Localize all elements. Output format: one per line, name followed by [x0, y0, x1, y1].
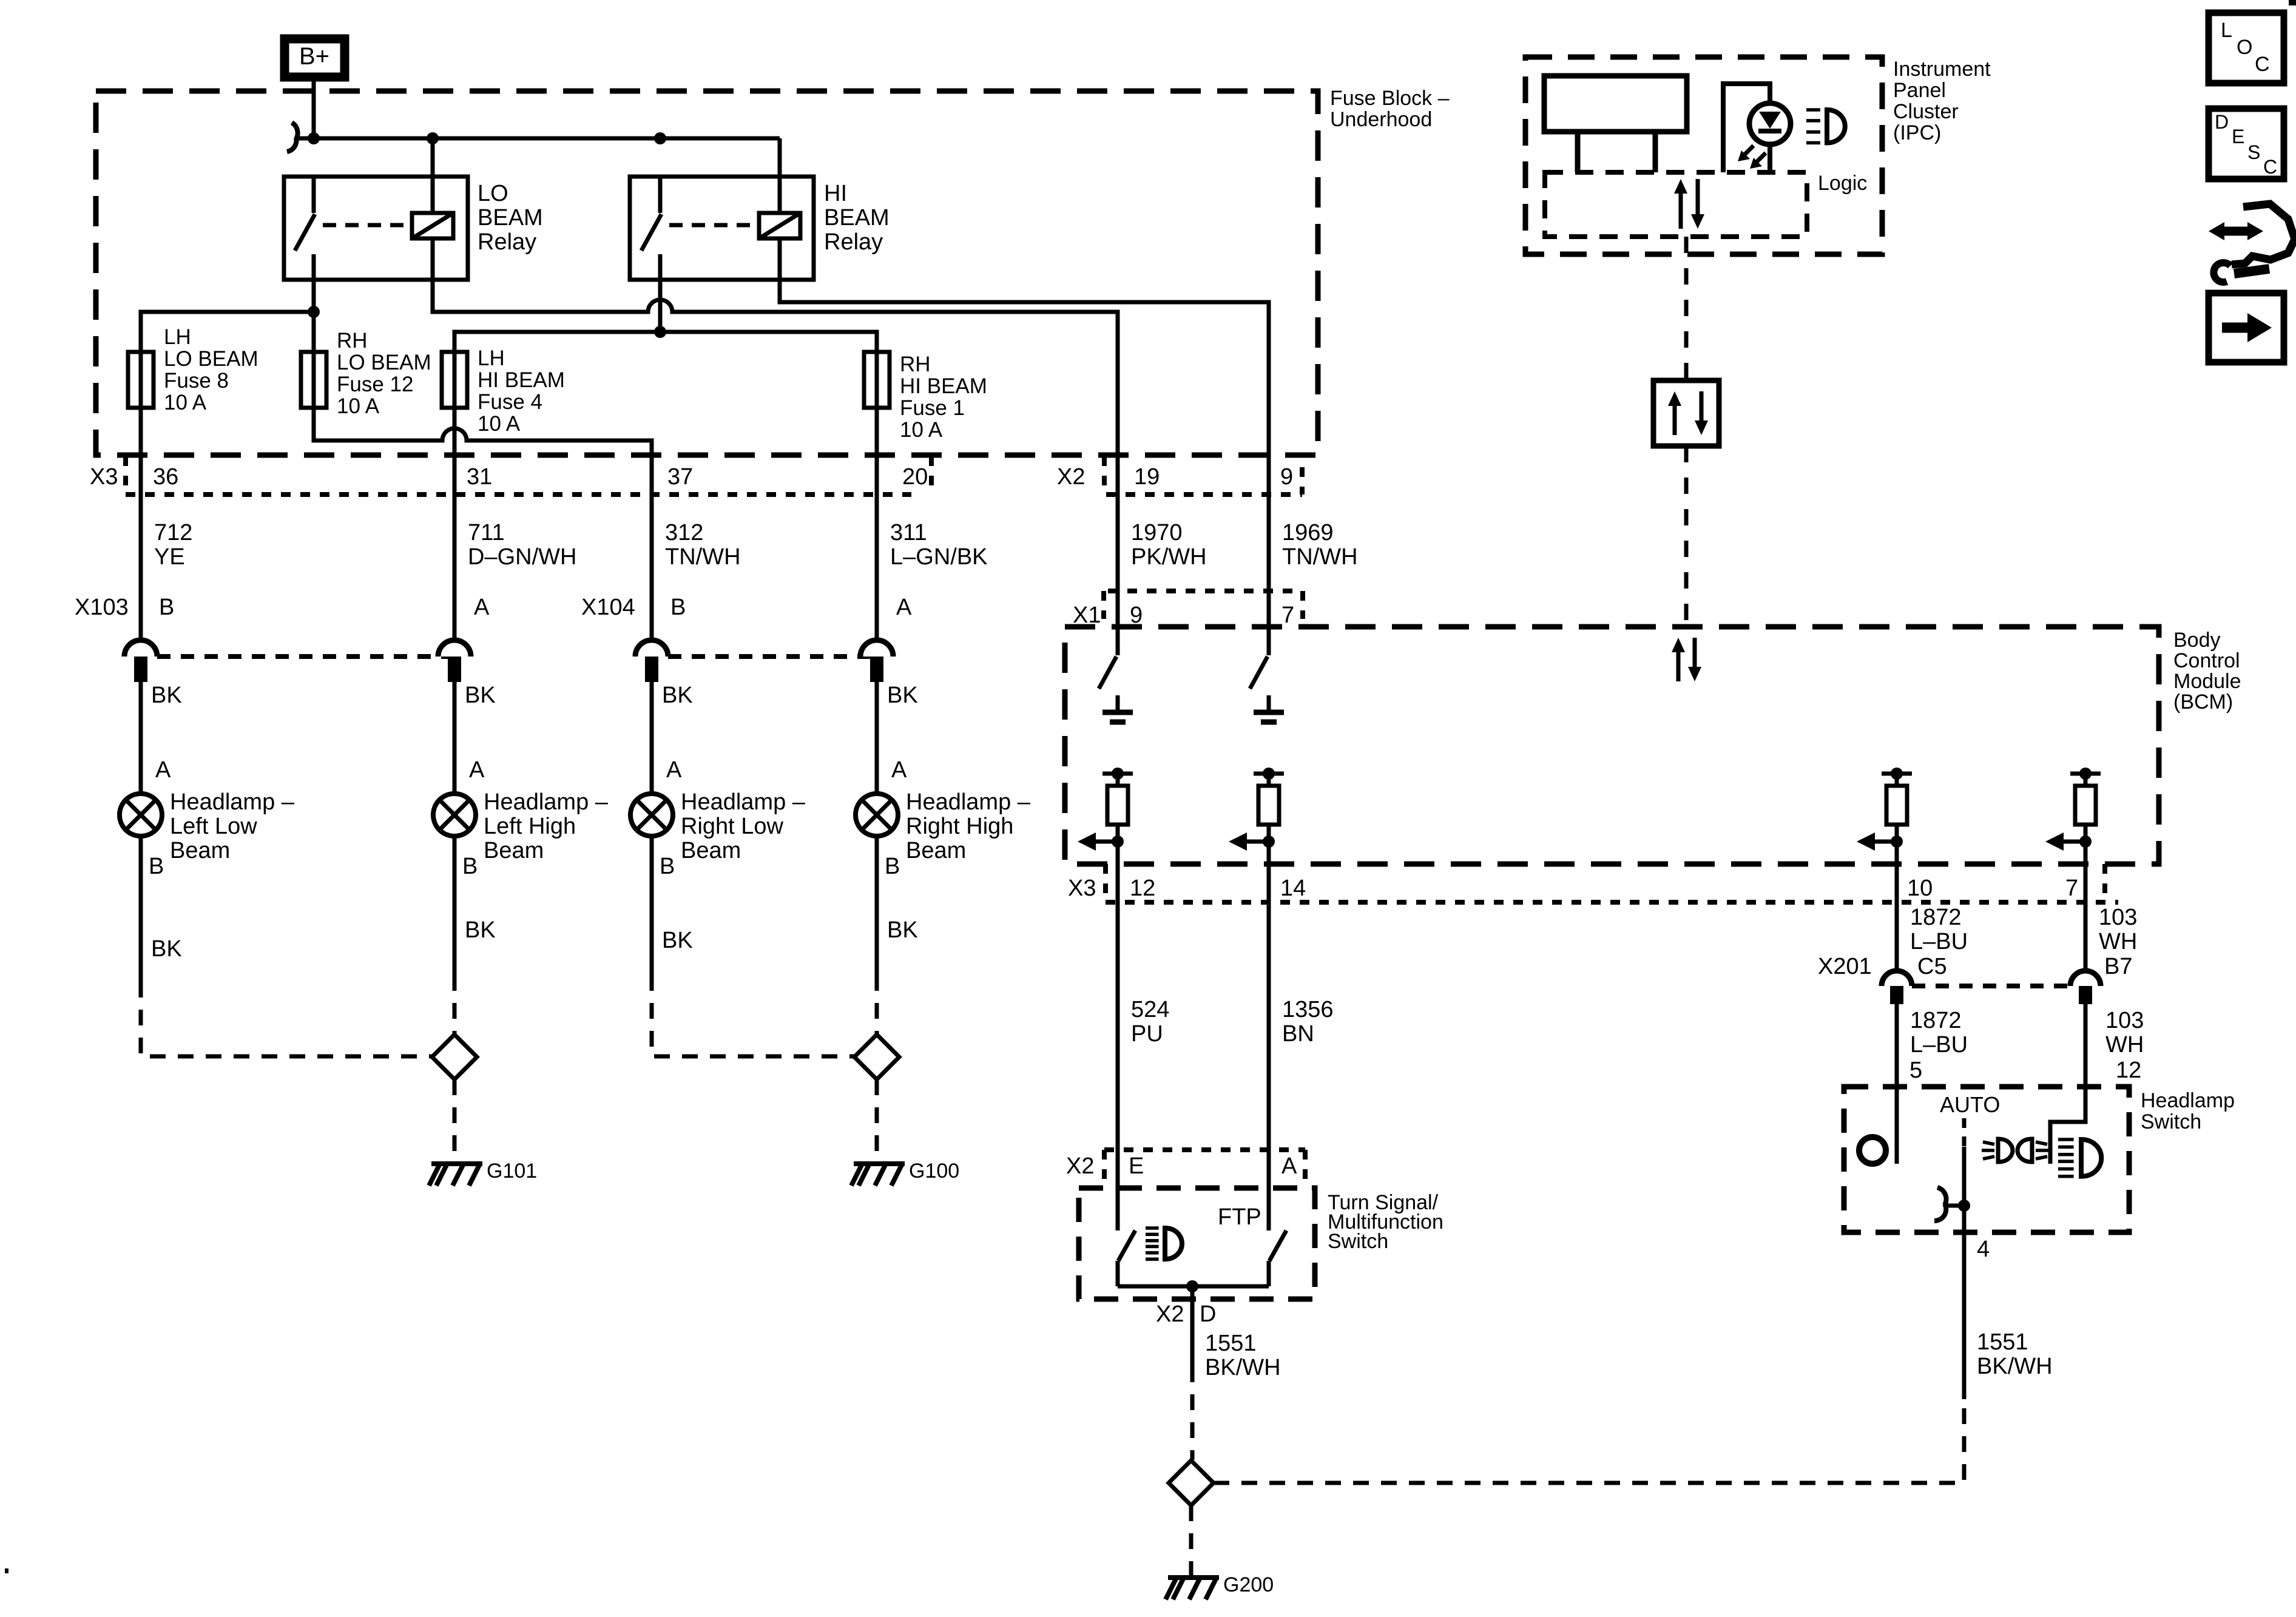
svg-text:LH: LH — [478, 346, 505, 370]
connector X104 pin A — [860, 640, 893, 682]
svg-text:10 A: 10 A — [164, 391, 207, 414]
svg-text:WH: WH — [2105, 1032, 2144, 1058]
svg-text:B: B — [149, 854, 164, 879]
svg-text:B: B — [660, 854, 675, 879]
svg-text:A: A — [896, 595, 912, 620]
svg-text:D–GN/WH: D–GN/WH — [468, 544, 576, 570]
wire HI coil to pin 9 — [780, 238, 1269, 455]
svg-text:712: 712 — [154, 520, 192, 545]
svg-text:PU: PU — [1131, 1021, 1163, 1047]
serial data arrows in BCM — [1672, 638, 1701, 681]
svg-text:L: L — [2221, 19, 2232, 42]
svg-text:Right Low: Right Low — [681, 814, 784, 839]
svg-text:Panel: Panel — [1893, 79, 1946, 102]
svg-text:312: 312 — [665, 520, 703, 545]
svg-text:BK: BK — [465, 683, 496, 708]
svg-text:Beam: Beam — [681, 838, 741, 863]
wire X201 C5 to switch — [1895, 1004, 1899, 1164]
svg-text:Fuse 4: Fuse 4 — [478, 390, 542, 414]
wire 1970 pin19 to BCM — [1116, 455, 1120, 655]
svg-text:D: D — [1200, 1301, 1216, 1327]
switch BCM high beam driver — [1250, 657, 1284, 722]
node switch common — [1186, 1280, 1198, 1292]
wire dashed into splice — [453, 975, 457, 1035]
svg-text:Headlamp: Headlamp — [2141, 1089, 2235, 1112]
serial data gateway box — [1653, 380, 1719, 446]
svg-text:RH: RH — [900, 353, 931, 376]
wire LO coil to pin 19 with hop — [433, 238, 1118, 455]
wire feed to fuse 8 — [141, 312, 314, 352]
wire serial data IPC to BCM dashed — [1684, 237, 1689, 380]
svg-text:BK: BK — [151, 936, 182, 962]
svg-text:Logic: Logic — [1818, 172, 1867, 195]
svg-text:1969: 1969 — [1282, 520, 1334, 545]
svg-text:L–GN/BK: L–GN/BK — [890, 544, 988, 570]
fuse block underhood dashed box — [96, 87, 1450, 455]
svg-text:G101: G101 — [487, 1160, 537, 1183]
IPC instrument panel cluster dashed box — [1525, 57, 1991, 254]
wire 524 PU label — [1131, 997, 1169, 1047]
ground G100 — [851, 1160, 959, 1186]
svg-text:A: A — [474, 595, 490, 620]
connector X3 fuse block row — [90, 456, 931, 495]
svg-text:L–BU: L–BU — [1910, 1032, 1968, 1058]
svg-text:1872: 1872 — [1910, 905, 1962, 930]
svg-text:BK: BK — [151, 683, 182, 708]
connector X201 pin C5 — [1882, 971, 1912, 1004]
svg-text:Cluster: Cluster — [1893, 100, 1959, 123]
svg-text:7: 7 — [1281, 603, 1294, 628]
svg-text:Body: Body — [2173, 629, 2221, 652]
connector X2 pin D labels — [1156, 1301, 1216, 1327]
svg-text:A: A — [666, 757, 682, 783]
wire bus corner to HI coil — [778, 138, 782, 213]
wire 711 D-GN/WH label — [468, 520, 576, 570]
svg-text:12: 12 — [2116, 1058, 2141, 1083]
svg-text:Left High: Left High — [484, 814, 576, 839]
svg-text:RH: RH — [337, 329, 368, 353]
svg-text:E: E — [2232, 126, 2244, 147]
svg-text:5: 5 — [1909, 1058, 1922, 1083]
svg-text:B: B — [462, 854, 478, 879]
svg-text:X3: X3 — [1068, 876, 1096, 901]
wire LO relay coil to bus — [431, 138, 435, 213]
svg-text:1551: 1551 — [1205, 1331, 1257, 1356]
svg-text:Control: Control — [2173, 649, 2240, 672]
node bus / B+ junction — [308, 132, 320, 144]
connector X201 pin B7 — [2070, 971, 2101, 1004]
wire LO relay output to fuse feed — [312, 280, 316, 352]
svg-text:BK/WH: BK/WH — [1977, 1354, 2053, 1379]
wire BK right low — [652, 682, 693, 794]
lamp Headlamp Left High Beam — [433, 757, 609, 879]
svg-text:FTP: FTP — [1218, 1204, 1261, 1230]
svg-text:1551: 1551 — [1977, 1329, 2028, 1355]
connector X104 pin B — [635, 640, 668, 682]
svg-text:Beam: Beam — [906, 838, 966, 863]
svg-text:C5: C5 — [1917, 954, 1947, 979]
svg-text:Switch: Switch — [2141, 1110, 2201, 1133]
svg-text:10 A: 10 A — [478, 412, 521, 436]
wire 1551 from switch — [1190, 1286, 1195, 1366]
wire 1969 TN/WH label — [1282, 520, 1358, 570]
node bus / LO coil junction — [427, 132, 439, 144]
svg-text:Fuse 12: Fuse 12 — [337, 373, 413, 396]
svg-text:BN: BN — [1282, 1021, 1314, 1047]
connector X104 — [581, 595, 912, 657]
wire 1970 PK/WH label — [1131, 520, 1207, 570]
svg-text:B7: B7 — [2104, 954, 2132, 979]
svg-text:(BCM): (BCM) — [2173, 690, 2233, 714]
wire switch common rail — [1118, 1284, 1269, 1289]
wire BK right high — [877, 682, 918, 794]
node HI output junction — [654, 326, 666, 338]
svg-text:103: 103 — [2105, 1008, 2144, 1033]
svg-text:Relay: Relay — [478, 229, 536, 255]
wire BK left high lower — [454, 836, 496, 975]
svg-text:LO BEAM: LO BEAM — [164, 347, 258, 371]
wire 1356 BN label — [1282, 997, 1334, 1047]
wire 1551 BK/WH label — [1205, 1331, 1281, 1380]
svg-text:311: 311 — [890, 520, 927, 545]
svg-text:C: C — [2255, 53, 2270, 76]
svg-text:X2: X2 — [1057, 464, 1085, 490]
switch BCM low beam driver — [1099, 657, 1133, 722]
svg-text:BK: BK — [465, 917, 496, 943]
svg-text:Fuse 1: Fuse 1 — [900, 396, 965, 420]
svg-text:BK: BK — [887, 917, 918, 943]
wire pin 14 stub — [1267, 842, 1271, 1230]
ground G200 — [1166, 1573, 1274, 1599]
connector X2 turn signal row — [1066, 1150, 1305, 1180]
svg-text:9: 9 — [1280, 464, 1293, 490]
svg-text:Headlamp –: Headlamp – — [681, 789, 806, 815]
svg-text:O: O — [2237, 36, 2252, 59]
IPC logic dashed box — [1545, 172, 1867, 237]
wire 1872 L-BU label lower — [1910, 1008, 1968, 1058]
svg-text:B: B — [670, 595, 686, 620]
connector X201 row — [1818, 954, 2132, 986]
svg-text:HI: HI — [824, 181, 847, 206]
svg-text:LO BEAM: LO BEAM — [337, 351, 431, 374]
wire B+ feed — [312, 81, 316, 138]
wire HI relay output — [658, 280, 663, 332]
svg-text:Fuse 8: Fuse 8 — [164, 369, 229, 393]
wire 103 WH label lower — [2105, 1008, 2144, 1058]
lamp Headlamp Left Low Beam — [120, 757, 295, 879]
wire 1872 L-BU label upper — [1910, 905, 1968, 954]
page footer dot — [5, 1568, 8, 1573]
svg-text:Instrument: Instrument — [1893, 58, 1991, 81]
wire dashed to G100 splice — [652, 975, 854, 1056]
wire 1969 pin9 to BCM — [1267, 455, 1271, 655]
ground G101 — [429, 1160, 537, 1186]
svg-text:LO: LO — [478, 181, 508, 206]
wire BK right low lower — [652, 836, 693, 975]
wire fuse 4 to pin 31 — [453, 408, 457, 640]
svg-text:A: A — [155, 757, 171, 783]
svg-text:711: 711 — [468, 520, 505, 545]
svg-text:BK: BK — [662, 928, 693, 953]
node LO output junction — [308, 306, 320, 318]
svg-text:14: 14 — [1280, 876, 1306, 901]
fuse LH HI BEAM Fuse 4 — [442, 346, 565, 436]
svg-text:A: A — [469, 757, 485, 783]
wire dashed into splice right — [875, 975, 879, 1035]
relay HI BEAM Relay — [630, 177, 890, 280]
wire 312 TN/WH label — [665, 520, 741, 570]
switch off position O — [1859, 1137, 1886, 1164]
lamp Headlamp Right High Beam — [856, 757, 1031, 879]
wire dashed splice to ground G200 — [1189, 1505, 1194, 1575]
IPC headlamp icon — [1806, 110, 1845, 143]
svg-text:X104: X104 — [581, 595, 635, 620]
splice left BK — [432, 1035, 477, 1079]
svg-text:12: 12 — [1130, 876, 1155, 901]
wire BK left low — [141, 682, 182, 794]
connector X2 fuse block row — [1057, 456, 1302, 495]
svg-text:103: 103 — [2099, 905, 2137, 930]
svg-text:10 A: 10 A — [337, 394, 380, 418]
fuse LH LO BEAM Fuse 8 — [128, 325, 258, 414]
svg-text:L–BU: L–BU — [1910, 929, 1968, 954]
legend next arrow box — [2209, 293, 2284, 362]
svg-text:31: 31 — [467, 464, 492, 490]
svg-text:Headlamp –: Headlamp – — [484, 789, 609, 815]
svg-text:BEAM: BEAM — [824, 205, 890, 231]
wire 1551 dashed to splice — [1190, 1366, 1195, 1460]
switch flash to pass A — [1269, 1230, 1286, 1286]
IPC display block — [1544, 76, 1687, 172]
svg-text:A: A — [891, 757, 907, 783]
node bus / HI switch junction — [654, 132, 666, 144]
wire dashed to G101 splice — [141, 982, 432, 1056]
wire fuse 1 to pin 20 — [875, 408, 879, 640]
svg-text:D: D — [2215, 111, 2229, 133]
wire 712 YE label — [154, 520, 192, 570]
lamp Headlamp Right Low Beam — [630, 757, 806, 879]
wire pin 7 stub — [2084, 842, 2088, 971]
svg-text:LH: LH — [164, 325, 191, 349]
resistor BCM low beam input — [1078, 768, 1133, 851]
wire dashed to ground G100 — [875, 1079, 879, 1161]
svg-text:BK: BK — [887, 683, 918, 708]
wire fuse 8 to pin 36 — [139, 408, 143, 640]
switch flash to pass E — [1118, 1230, 1135, 1286]
turn signal multifunction switch dashed box — [1079, 1188, 1443, 1299]
svg-text:36: 36 — [153, 464, 178, 490]
connector X103 pin A — [438, 640, 471, 682]
svg-text:(IPC): (IPC) — [1893, 121, 1941, 144]
svg-text:A: A — [1281, 1153, 1297, 1179]
svg-text:HI BEAM: HI BEAM — [900, 374, 987, 398]
svg-text:X2: X2 — [1156, 1301, 1184, 1327]
svg-text:Beam: Beam — [170, 838, 230, 863]
wire auto position dashed stub — [1962, 1118, 1967, 1147]
svg-text:Fuse Block –: Fuse Block – — [1330, 87, 1450, 110]
svg-text:G200: G200 — [1223, 1573, 1274, 1596]
svg-text:TN/WH: TN/WH — [1282, 544, 1358, 570]
svg-text:HI BEAM: HI BEAM — [478, 368, 565, 392]
wire pin 12 stub — [1116, 842, 1120, 1230]
svg-text:X3: X3 — [90, 464, 118, 490]
wire BK left low lower — [141, 836, 182, 982]
wire 1551 BK/WH right label — [1977, 1329, 2053, 1379]
svg-text:524: 524 — [1131, 997, 1169, 1022]
splice G200 — [1169, 1460, 1214, 1505]
wire dashed splice to headlamp switch — [1214, 1399, 1964, 1483]
svg-text:AUTO: AUTO — [1940, 1092, 2000, 1117]
svg-text:1872: 1872 — [1910, 1008, 1962, 1033]
svg-text:Relay: Relay — [824, 229, 883, 255]
svg-text:C: C — [2263, 156, 2277, 178]
svg-text:Headlamp –: Headlamp – — [906, 789, 1031, 815]
svg-text:BK: BK — [662, 683, 693, 708]
headlamp switch headlamp icon — [2058, 1139, 2101, 1176]
relay LO BEAM Relay — [284, 177, 543, 280]
wire headlamp switch wiper — [1962, 1147, 1967, 1399]
wire feed to fuse 4 — [454, 332, 660, 352]
svg-text:37: 37 — [667, 464, 693, 490]
fuse RH HI BEAM Fuse 1 — [864, 352, 987, 442]
svg-text:Right High: Right High — [906, 814, 1013, 839]
fuse RH LO BEAM Fuse 12 — [301, 329, 431, 418]
wire 103 WH label upper — [2099, 905, 2137, 954]
IPC logic serial arrows — [1674, 179, 1704, 229]
svg-text:Switch: Switch — [1328, 1230, 1388, 1253]
node wiper junction — [1958, 1200, 1970, 1212]
svg-text:10 A: 10 A — [900, 418, 943, 442]
svg-text:Module: Module — [2173, 670, 2241, 693]
connector X1 row — [1073, 591, 1303, 628]
svg-text:Headlamp –: Headlamp – — [170, 789, 295, 815]
connector X103 pin B — [124, 640, 157, 682]
connector X103 — [75, 595, 490, 657]
svg-text:7: 7 — [2065, 876, 2078, 901]
svg-text:20: 20 — [902, 464, 928, 490]
legend LOC box — [2209, 13, 2284, 83]
svg-text:X201: X201 — [1818, 954, 1872, 979]
svg-text:10: 10 — [1907, 876, 1933, 901]
svg-text:B+: B+ — [299, 43, 329, 70]
svg-text:Underhood: Underhood — [1330, 108, 1432, 131]
power hook terminal — [287, 123, 298, 152]
svg-text:19: 19 — [1134, 464, 1160, 490]
svg-text:1970: 1970 — [1131, 520, 1183, 545]
svg-text:X103: X103 — [75, 595, 129, 620]
wire X201 B7 to switch jog — [2050, 1004, 2085, 1164]
wire 311 L-GN/BK label — [890, 520, 988, 570]
svg-text:Left Low: Left Low — [170, 814, 257, 839]
svg-text:Beam: Beam — [484, 838, 544, 863]
svg-text:YE: YE — [154, 544, 185, 570]
wire BK left high — [454, 682, 496, 794]
wire battery bus — [295, 137, 780, 141]
splice right BK — [854, 1035, 899, 1079]
svg-text:PK/WH: PK/WH — [1131, 544, 1207, 570]
svg-text:X2: X2 — [1066, 1153, 1094, 1179]
headlamp switch park icon — [1982, 1139, 2048, 1162]
turn signal headlamp icon — [1146, 1228, 1182, 1259]
BCM body control module dashed box — [1065, 627, 2241, 864]
svg-text:E: E — [1129, 1153, 1144, 1179]
resistor BCM high beam input — [1229, 768, 1284, 851]
svg-text:4: 4 — [1977, 1237, 1990, 1262]
svg-text:WH: WH — [2099, 929, 2137, 954]
wire fuse 12 jog to pin 37 with hop — [314, 408, 652, 640]
wire dashed to ground G101 — [453, 1079, 457, 1161]
svg-text:B: B — [885, 854, 900, 879]
battery terminal B+ — [285, 39, 345, 77]
svg-text:BK/WH: BK/WH — [1205, 1355, 1281, 1380]
wire pin 10 stub — [1895, 842, 1899, 971]
wire BK right high lower — [877, 836, 918, 975]
svg-text:1356: 1356 — [1282, 997, 1334, 1022]
svg-text:BEAM: BEAM — [478, 205, 543, 231]
svg-text:S: S — [2247, 141, 2260, 163]
switch wiper hook — [1934, 1187, 1964, 1221]
headlamp switch dashed box — [1844, 1087, 2235, 1232]
legend service icon — [2209, 204, 2295, 282]
resistor BCM headlamp switch auto input — [1857, 768, 1912, 851]
connector X3 BCM row — [1068, 864, 2118, 902]
wire serial data to BCM dashed lower — [1684, 446, 1689, 627]
legend DESC box — [2209, 109, 2284, 179]
page corner mark — [2289, 0, 2296, 5]
wire feed to fuse 1 — [660, 332, 877, 352]
resistor BCM headlamp switch on input — [2045, 768, 2101, 851]
IPC high beam indicator LED — [1723, 84, 1791, 172]
svg-text:G100: G100 — [909, 1160, 959, 1183]
svg-text:B: B — [159, 595, 174, 620]
svg-text:TN/WH: TN/WH — [665, 544, 741, 570]
